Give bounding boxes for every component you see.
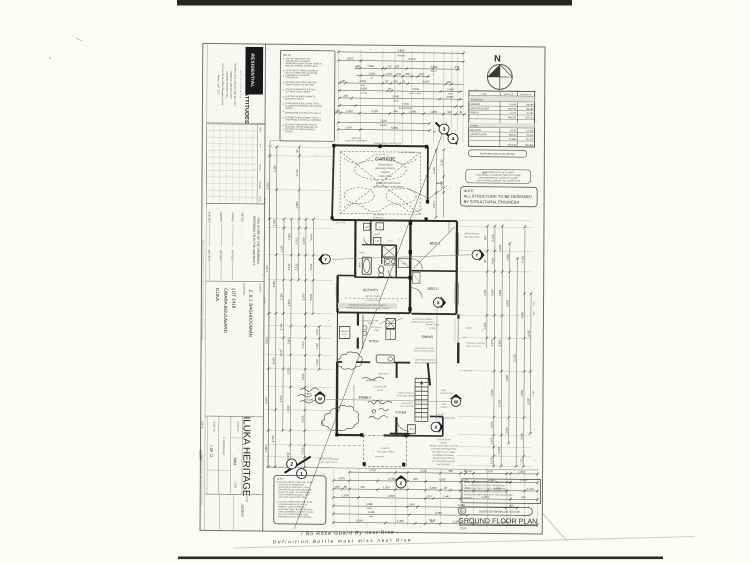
svg-text:GP NO.: GP NO.: [438, 414, 445, 416]
svg-text:@ 30c: @ 30c: [377, 390, 383, 392]
svg-text:230: 230: [446, 80, 451, 84]
wind classification box: [462, 479, 541, 504]
section slash 3-4: [435, 122, 457, 144]
svg-text:8,090: 8,090: [408, 57, 415, 61]
svg-text:5,030: 5,030: [356, 518, 363, 522]
svg-text:WM: WM: [365, 227, 369, 229]
svg-text:SINGLE LEAF BRW CLAD HI-: SINGLE LEAF BRW CLAD HI-: [429, 444, 458, 447]
svg-text:3,540: 3,540: [359, 79, 366, 83]
svg-text:2,547: 2,547: [432, 201, 436, 208]
svg-text:7,900: 7,900: [505, 374, 509, 381]
svg-text:MODEL No: MODEL No: [236, 421, 238, 433]
svg-text:AWNING TO DETAILS: AWNING TO DETAILS: [318, 458, 340, 461]
svg-text:2,560: 2,560: [447, 87, 454, 91]
dim row 7030: [338, 101, 463, 108]
svg-text:BALCONY OVER: BALCONY OVER: [377, 450, 394, 453]
svg-text:U/S OF SLAB: U/S OF SLAB: [437, 438, 451, 441]
svg-text:34.790: 34.790: [526, 113, 534, 115]
svg-text:3,360: 3,360: [309, 293, 313, 300]
svg-text:600: 600: [410, 503, 415, 507]
svg-text:CUBE: CUBE: [374, 330, 380, 332]
svg-text:Definition Bottle must mis: Definition Bottle must miss next Rise: [273, 537, 412, 544]
svg-text:activity: activity: [361, 91, 368, 94]
svg-text:5,970: 5,970: [264, 397, 268, 404]
svg-text:4,390: 4,390: [490, 289, 494, 296]
svg-text:BATH: BATH: [358, 262, 361, 268]
svg-text:4,080: 4,080: [368, 510, 375, 514]
svg-text:REPRESENTATION OF: REPRESENTATION OF: [376, 182, 401, 185]
svg-text:3,390: 3,390: [279, 293, 283, 300]
svg-text:4,230: 4,230: [280, 245, 284, 252]
service duct: [339, 326, 350, 338]
shower: [382, 245, 396, 257]
svg-text:ADDRESS:: ADDRESS:: [242, 283, 245, 296]
svg-text:1,710: 1,710: [519, 457, 523, 464]
svg-text:BAT OAM VANU: BAT OAM VANU: [465, 236, 480, 239]
svg-text:4,400: 4,400: [265, 265, 269, 272]
svg-text:3: 3: [443, 127, 446, 133]
svg-text:600: 600: [397, 72, 402, 76]
svg-text:CLIENT:: CLIENT:: [258, 284, 261, 293]
dashed slab edge line: [298, 444, 363, 447]
svg-text:FAMILY: FAMILY: [359, 396, 372, 400]
svg-text:Builder to verify all dimensio: Builder to verify all dimensions and lev…: [201, 240, 205, 340]
dim row 7010: [337, 118, 431, 124]
svg-text:2,050: 2,050: [491, 257, 495, 264]
svg-text:230: 230: [343, 94, 348, 98]
marker Z: [395, 475, 408, 488]
svg-text:BUILDER: BUILDER: [208, 212, 211, 223]
svg-text:6.710: 6.710: [510, 113, 516, 115]
svg-text:2,560: 2,560: [446, 95, 453, 99]
left dim col 2: [271, 145, 278, 468]
bed 2 walls: [411, 313, 456, 315]
section line X-X: [435, 308, 438, 420]
door arcs bath block: [364, 238, 371, 245]
svg-text:7-BAR LINTEL OVER @ 28c: 7-BAR LINTEL OVER @ 28c: [373, 142, 402, 145]
svg-text:REFERRED TO IN THE CONTRACT: REFERRED TO IN THE CONTRACT: [252, 216, 256, 266]
svg-text:(rear): (rear): [393, 99, 398, 102]
svg-text:POAB: POAB: [359, 251, 365, 254]
svg-text:1,870: 1,870: [486, 469, 493, 473]
handwriting scribble left: [298, 388, 319, 403]
svg-text:1,210: 1,210: [315, 328, 319, 335]
svg-text:1,040: 1,040: [533, 390, 535, 396]
svg-text:5,550: 5,550: [391, 126, 398, 130]
svg-text:5,750: 5,750: [271, 435, 275, 442]
dim row activity: [338, 94, 463, 101]
svg-text:ASOT: ASOT: [441, 403, 447, 406]
svg-text:6,000: 6,000: [265, 182, 269, 189]
bed 3 walls: [428, 220, 458, 222]
svg-text:6,650: 6,650: [505, 299, 509, 306]
svg-text:8,050: 8,050: [527, 330, 531, 337]
svg-text:940: 940: [447, 110, 452, 114]
right dim col 6: [519, 225, 526, 468]
svg-text:B/ PAVED: B/ PAVED: [375, 455, 385, 458]
svg-text:+ TAP: + TAP: [480, 172, 486, 175]
F appliance: [376, 223, 384, 230]
svg-text:90: 90: [483, 259, 487, 263]
bed 2 door: [412, 288, 423, 299]
svg-text:LINE OF GABLE: LINE OF GABLE: [400, 151, 416, 154]
svg-text:“CONSIDERED” W/SD BEAM: “CONSIDERED” W/SD BEAM: [373, 185, 404, 188]
svg-text:ENG DETAILS: ENG DETAILS: [437, 463, 451, 466]
right wall dining segments: [457, 314, 459, 319]
svg-text:3,430: 3,430: [295, 169, 299, 176]
tub: [373, 237, 381, 244]
handwritten site note line 1: [300, 530, 399, 538]
svg-text:3,270: 3,270: [490, 339, 494, 346]
svg-text:4,600: 4,600: [287, 299, 291, 306]
svg-text:Facsimile: (08) 9241 7001: Facsimile: (08) 9241 7001: [225, 71, 227, 98]
laundry bath block walls: [354, 220, 357, 278]
svg-text:80x 80 STEEL POSTS: 80x 80 STEEL POSTS: [433, 458, 455, 460]
svg-text:940: 940: [393, 109, 398, 113]
svg-text:3,390: 3,390: [272, 219, 276, 226]
svg-text:1,810: 1,810: [301, 373, 305, 380]
svg-text:1,200: 1,200: [385, 72, 392, 76]
svg-text:500 P/HD UP: 500 P/HD UP: [373, 214, 386, 216]
svg-text:N: N: [494, 54, 501, 64]
svg-text:1,870: 1,870: [345, 125, 352, 129]
svg-text:1,610: 1,610: [527, 487, 534, 491]
left dim col 4: [286, 218, 293, 469]
svg-text:6,720: 6,720: [521, 255, 525, 262]
svg-text:90: 90: [295, 149, 299, 153]
svg-text:DOORS: DOORS: [285, 108, 293, 110]
svg-text:(BRUSHED PAVED): (BRUSHED PAVED): [375, 167, 395, 170]
marker W right: [450, 394, 462, 407]
section line Y-Y: [332, 253, 470, 260]
svg-text:B/G QUART: B/G QUART: [371, 326, 382, 329]
svg-text:Perimeter (m): Perimeter (m): [520, 93, 532, 96]
svg-text:RESIDENTIAL: RESIDENTIAL: [250, 54, 255, 88]
svg-text:1,430: 1,430: [520, 478, 527, 482]
entry right walls: [430, 415, 443, 417]
svg-text:4,550: 4,550: [498, 244, 502, 251]
left dim col 7: [309, 218, 315, 315]
svg-text:2,440: 2,440: [279, 323, 283, 330]
svg-text:4,380: 4,380: [435, 511, 442, 515]
svg-text:a d i r e c t i o n i n h o: a d i r e c t i o n i n h o u s i n g: [239, 71, 242, 98]
right dim col 4: [505, 242, 512, 445]
svg-text:SAND PAD: SAND PAD: [351, 137, 362, 140]
svg-text:OFFICE.: OFFICE.: [464, 497, 473, 499]
handwriting in family room: [362, 377, 392, 419]
sheet border: [200, 43, 545, 534]
svg-text:PAINTING/TOILETS & BATHROOMS: PAINTING/TOILETS & BATHROOMS: [278, 515, 312, 518]
left dim col 5: [294, 146, 300, 282]
dim row 1870 5550: [337, 125, 431, 131]
line of upper floor dashed: [345, 297, 407, 300]
svg-text:3984: 3984: [233, 457, 237, 465]
svg-text:CEMENT: CEMENT: [381, 172, 391, 174]
svg-text:U/S OF SLAB: U/S OF SLAB: [374, 385, 388, 388]
svg-text:ISSUES.: ISSUES.: [285, 131, 294, 133]
revision table: [206, 124, 265, 204]
svg-text:GARAGE: GARAGE: [470, 103, 480, 106]
svg-text:Telephone: (08) 9241 7000: Telephone: (08) 9241 7000: [229, 71, 231, 99]
svg-text:WITNESS: WITNESS: [207, 250, 210, 262]
svg-text:JOB No: JOB No: [201, 421, 203, 429]
svg-text:UNDER: UNDER: [441, 407, 448, 409]
svg-text:3,640: 3,640: [309, 233, 313, 240]
svg-text:1,240: 1,240: [490, 437, 494, 444]
svg-text:2,510: 2,510: [287, 263, 291, 270]
svg-text:2,060: 2,060: [301, 415, 305, 422]
svg-text:@ 30c: @ 30c: [429, 328, 435, 330]
svg-text:3,420: 3,420: [440, 159, 444, 166]
svg-text:All boundary setbacks to be ve: All boundary setbacks to be verified by …: [200, 455, 203, 506]
svg-text:INTERLOCKED BOUNDARY WALL (MAX: INTERLOCKED BOUNDARY WALL (MAX 7 WALL): [346, 307, 390, 310]
svg-text:QUANTITIES NOT CALCULATED: QUANTITIES NOT CALCULATED: [482, 171, 515, 174]
svg-text:1,980: 1,980: [368, 72, 375, 76]
svg-text:670 AFL: 670 AFL: [304, 399, 314, 402]
bottom extension lines: [332, 467, 334, 525]
bottom dim row 6: [332, 510, 469, 517]
area table: [469, 91, 535, 147]
svg-text:FOYER: FOYER: [396, 411, 407, 415]
svg-text:ILUKA: ILUKA: [215, 288, 220, 301]
bottom dim row 3: [332, 485, 539, 493]
svg-text:1,875: 1,875: [338, 476, 345, 480]
svg-text:1,810: 1,810: [439, 477, 446, 481]
svg-text:ROOF AREA (ON PLAN) 188.70m: ROOF AREA (ON PLAN) 188.70m: [480, 153, 515, 156]
svg-text:9,640: 9,640: [271, 357, 275, 364]
marker Y left: [318, 253, 330, 265]
svg-text:2,210: 2,210: [300, 447, 304, 454]
svg-text:5,560: 5,560: [498, 339, 502, 346]
svg-text:800: 800: [393, 79, 398, 83]
svg-text:PORCH: PORCH: [470, 112, 479, 114]
svg-text:ARC. SHT 2 OF 2: ARC. SHT 2 OF 2: [320, 461, 338, 464]
svg-text:730: 730: [360, 485, 365, 489]
svg-text:WEDGE PT: WEDGE PT: [378, 373, 389, 375]
svg-text:GARAGE: GARAGE: [375, 156, 395, 161]
svg-text:1,441: 1,441: [443, 494, 450, 498]
svg-text:INSTALLED BY BUILDER: INSTALLED BY BUILDER: [411, 321, 434, 324]
svg-text:3,140: 3,140: [279, 349, 283, 356]
svg-text:39.360: 39.360: [526, 105, 534, 107]
svg-text:2,610: 2,610: [505, 426, 509, 433]
svg-text:4,280: 4,280: [366, 502, 373, 506]
svg-text:OL 30: OL 30: [265, 197, 267, 204]
svg-text:1,700: 1,700: [301, 341, 305, 348]
svg-text:71.890: 71.890: [509, 139, 517, 141]
robe bed2 shelf: [412, 272, 420, 283]
section circle 1: [297, 469, 307, 479]
svg-text:1,040: 1,040: [489, 457, 493, 464]
paper tone wash: [201, 44, 545, 534]
pantry column with sink: [386, 318, 396, 328]
client / address section: [206, 280, 264, 283]
lot boundary lines: [268, 141, 270, 468]
right dim col 5: [512, 257, 519, 468]
svg-text:AND- SHT 2 OF 2: AND- SHT 2 OF 2: [466, 345, 480, 348]
svg-text:KITCH: KITCH: [369, 339, 380, 343]
bottom dim row 5: [332, 502, 519, 509]
svg-text:1,900: 1,900: [439, 181, 443, 188]
bottom left notes box: [274, 475, 326, 524]
svg-text:SHW SHRACK SENSE: SHW SHRACK SENSE: [415, 347, 435, 350]
svg-text:100: 100: [483, 235, 487, 240]
island bench: [376, 355, 394, 363]
svg-text:1 OF 12: 1 OF 12: [209, 445, 213, 457]
svg-text:5,420: 5,420: [432, 167, 436, 174]
bottom dim row 1: [348, 468, 539, 476]
svg-text:3,120: 3,120: [371, 109, 378, 113]
svg-text:WITNESS: WITNESS: [219, 250, 222, 262]
svg-text:MALAY KEEP GUTTER/BAL: MALAY KEEP GUTTER/BAL: [352, 385, 355, 408]
dim row 9890 overall: [337, 48, 465, 55]
svg-text:1:100: 1:100: [234, 482, 238, 489]
svg-text:9,890: 9,890: [398, 48, 405, 52]
svg-text:273.140: 273.140: [508, 145, 517, 147]
svg-text:4,390: 4,390: [498, 289, 502, 296]
marker Y right: [472, 249, 485, 261]
svg-text:1,810: 1,810: [490, 421, 494, 428]
svg-text:26,20: 26,20: [263, 297, 266, 304]
svg-text:10207K: 10207K: [198, 449, 202, 461]
svg-text:L/SO DUCT OVER: L/SO DUCT OVER: [385, 314, 401, 316]
svg-text:150.730: 150.730: [508, 109, 517, 111]
svg-text:WITNESS: WITNESS: [231, 250, 234, 262]
svg-text:230: 230: [521, 495, 526, 499]
svg-text:2,460: 2,460: [491, 234, 495, 241]
svg-text:bed 3 / bed 2: bed 3 / bed 2: [410, 93, 423, 95]
left dim col 8: [315, 325, 321, 371]
svg-text:H STEEL POST: H STEEL POST: [440, 393, 454, 395]
roof area box: [469, 150, 527, 157]
garage piers: [332, 144, 335, 148]
svg-text:BY STRUCTURAL ENGINEER: BY STRUCTURAL ENGINEER: [464, 199, 520, 205]
vanity with basins: [384, 258, 396, 265]
svg-text:ON VERTICALLY FIXED: ON VERTICALLY FIXED: [432, 451, 456, 454]
note box with bullet notes: [280, 50, 335, 141]
svg-text:PORTICO C: PORTICO C: [373, 217, 385, 219]
svg-text:DOWN STRAPS TO HD WIRE: DOWN STRAPS TO HD WIRE: [285, 83, 314, 86]
svg-text:Y: Y: [324, 257, 327, 262]
svg-text:DISCRETION: DISCRETION: [285, 77, 298, 79]
kitchen-family wall: [337, 361, 342, 363]
svg-text:780: 780: [448, 469, 453, 473]
svg-text:2,180: 2,180: [483, 322, 487, 329]
svg-text:1,860: 1,860: [430, 110, 437, 114]
svg-text:4: 4: [452, 136, 455, 142]
svg-text:1,500: 1,500: [342, 493, 349, 497]
svg-text:2,000: 2,000: [265, 337, 269, 344]
svg-text:935: 935: [395, 64, 400, 68]
svg-text:140 90: 140 90: [463, 469, 472, 473]
svg-text:4,530: 4,530: [490, 389, 494, 396]
svg-text:162.240: 162.240: [525, 117, 534, 119]
svg-text:3,940: 3,940: [520, 432, 524, 439]
dim row 1980 1200: [356, 71, 430, 77]
pwd box: [407, 425, 415, 434]
svg-text:P.O. Box 34, Woodland Shopping: P.O. Box 34, Woodland Shopping Centre,: [221, 64, 224, 107]
svg-text:1st floor: 1st floor: [470, 124, 478, 127]
svg-text:6,430: 6,430: [497, 399, 501, 406]
svg-text:2,680: 2,680: [302, 237, 306, 244]
svg-text:LAP OF UPPER: LAP OF UPPER: [365, 295, 381, 298]
svg-text:90: 90: [388, 64, 392, 68]
section line W-W: [326, 399, 450, 401]
kitchen bench left: [362, 315, 364, 349]
entry door arc: [397, 419, 409, 431]
svg-text:garage: garage: [380, 124, 388, 127]
svg-text:5,860: 5,860: [272, 280, 276, 287]
svg-text:1: 1: [300, 471, 303, 477]
svg-text:3,060: 3,060: [360, 86, 367, 90]
svg-text:LAST UPDATED. ERROR . NO SURVE: LAST UPDATED. ERROR . NO SURVEYORS: [476, 179, 520, 182]
handwritten site note line 2: [273, 537, 412, 544]
svg-text:13.100: 13.100: [526, 130, 534, 132]
svg-text:Z: Z: [400, 481, 403, 486]
signature section: THIS IS ONE OF THE DRAWINGS: [206, 202, 264, 205]
svg-text:1,840: 1,840: [409, 109, 416, 113]
svg-text:4,330: 4,330: [483, 289, 487, 296]
family walls: [336, 312, 338, 362]
svg-text:2: 2: [290, 462, 293, 468]
svg-text:4,330: 4,330: [286, 405, 290, 412]
svg-text:DRAWN: DRAWN: [258, 182, 261, 190]
svg-text:230: 230: [340, 79, 345, 83]
svg-text:11:00 AFL: 11:00 AFL: [365, 379, 377, 382]
svg-text:1,430: 1,430: [397, 519, 404, 523]
svg-text:8.350: 8.350: [510, 130, 516, 132]
dim row 1800 8090: [337, 56, 465, 63]
svg-text:Y: Y: [475, 253, 478, 258]
svg-text:FLOOR OVER: FLOOR OVER: [366, 300, 380, 302]
svg-text:2,210: 2,210: [286, 452, 290, 459]
dim row 3060: [338, 86, 463, 93]
svg-text:Z. & J. BAGHDOOMIAN: Z. & J. BAGHDOOMIAN: [248, 289, 253, 336]
svg-text:7,010: 7,010: [380, 119, 387, 123]
svg-text:Ground floor: Ground floor: [470, 98, 483, 101]
svg-text:+ TAP: + TAP: [465, 327, 471, 330]
svg-text:INSTALLED BY BUILDER: INSTALLED BY BUILDER: [414, 361, 437, 364]
window left family: [334, 401, 336, 421]
section circle 4: [448, 134, 458, 144]
dim row 7840: [355, 64, 460, 71]
svg-text:90: 90: [459, 110, 463, 114]
svg-text:BALUSTRADING: BALUSTRADING: [400, 405, 415, 408]
svg-text:W/- FOOTINGS AS PER: W/- FOOTINGS AS PER: [432, 460, 455, 463]
svg-text:90: 90: [402, 79, 406, 83]
svg-text:RADIATION HEAD: RADIATION HEAD: [439, 417, 456, 420]
svg-text:2,310: 2,310: [420, 469, 427, 473]
date section: [205, 493, 263, 496]
scanner black bar top: [177, 0, 572, 6]
svg-text:D/WONTER SLAB LAYOUT 40/VL SHE: D/WONTER SLAB LAYOUT 40/VL SHEET +: [349, 304, 387, 307]
svg-text:TUB: TUB: [375, 241, 380, 243]
svg-text:230: 230: [455, 65, 460, 69]
stray specks top left: [76, 38, 82, 41]
svg-text:1,410: 1,410: [315, 358, 319, 365]
linen sldr: [398, 259, 409, 268]
top dimension block: [337, 49, 340, 142]
structural note box: [461, 187, 538, 207]
svg-text:BALCONY: BALCONY: [470, 129, 481, 132]
svg-text:LOADED GUTTER: LOADED GUTTER: [362, 319, 379, 322]
svg-text:L'DRY: L'DRY: [374, 234, 381, 236]
left extension lines: [267, 146, 333, 149]
svg-text:DG x W7B: DG x W7B: [336, 222, 346, 224]
svg-text:1,810: 1,810: [518, 470, 525, 474]
svg-text:REV: REV: [259, 127, 262, 132]
svg-text:3,250: 3,250: [286, 367, 290, 374]
